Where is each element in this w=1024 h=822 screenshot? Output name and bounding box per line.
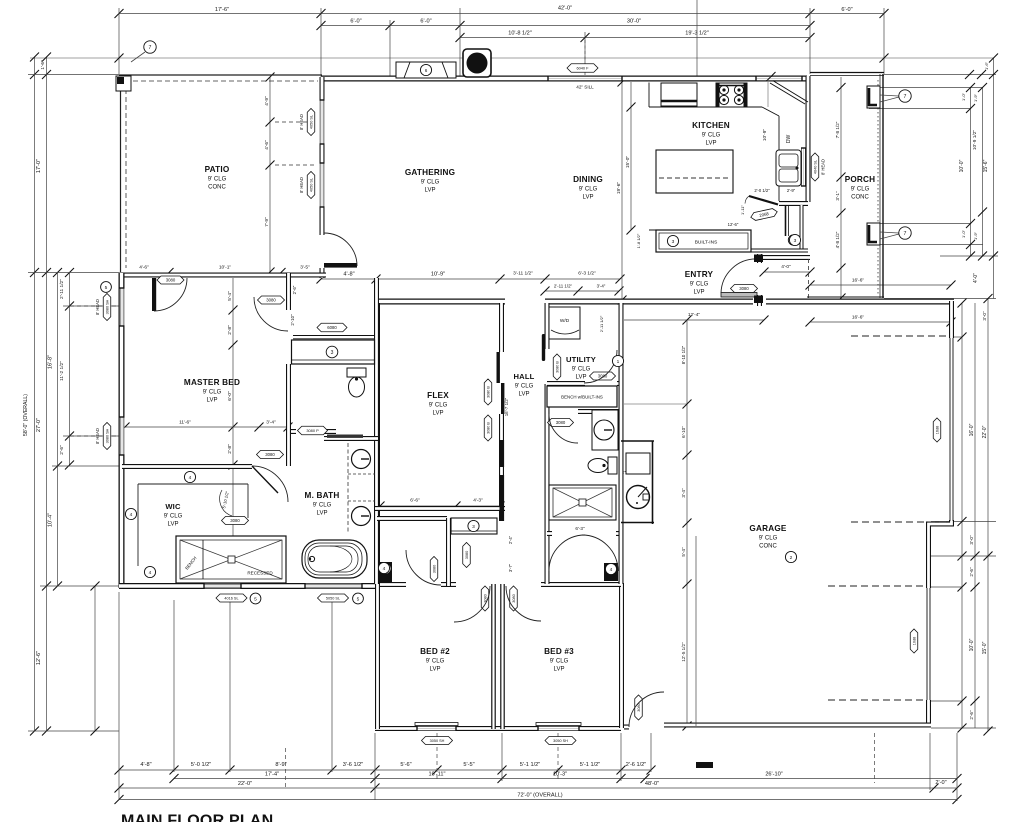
interior wall: garage west / middle column east [619, 303, 624, 584]
svg-text:16d8: 16d8 [936, 426, 940, 434]
svg-text:10'-9 1/2": 10'-9 1/2" [972, 130, 978, 151]
svg-text:2'-11 1/2": 2'-11 1/2" [554, 284, 573, 289]
svg-text:2'-8": 2'-8" [227, 325, 233, 335]
label hexagon 3050 SH bed3 [545, 737, 576, 745]
svg-text:4040 SL: 4040 SL [814, 160, 818, 174]
window 5050 SL mbath south [305, 584, 362, 589]
label hexagon 3080 P WC pocket door [298, 426, 328, 435]
interior wall: mbath north [324, 436, 378, 441]
porch column lower [867, 223, 880, 245]
kitchen sink [776, 150, 801, 186]
svg-text:UTILITY: UTILITY [566, 355, 596, 364]
tick on top wall at kitchen corner [767, 72, 776, 81]
exterior wall: master bed top (patio south) [119, 273, 326, 278]
svg-text:3080: 3080 [512, 594, 516, 602]
bath2 toilet [588, 457, 617, 474]
svg-text:6'-0": 6'-0" [350, 19, 361, 25]
washer dryer [549, 307, 580, 339]
svg-text:LVP: LVP [554, 667, 565, 673]
svg-text:9' CLG: 9' CLG [421, 180, 440, 186]
svg-text:3080: 3080 [465, 551, 469, 559]
fireplace [463, 49, 491, 77]
svg-text:4: 4 [189, 475, 192, 481]
exterior wall: house left [119, 273, 125, 588]
svg-text:8'-9": 8'-9" [275, 762, 286, 768]
marker 4 nook [380, 563, 391, 574]
label hexagon 3080 nook closet door [430, 557, 438, 582]
marker circle 7 lower porch [880, 232, 899, 233]
svg-text:3080: 3080 [265, 452, 275, 457]
marker 4 hall closet [605, 563, 616, 574]
svg-text:BED #3: BED #3 [544, 647, 574, 656]
svg-text:4'-3": 4'-3" [473, 498, 483, 504]
svg-text:2'-6": 2'-6" [292, 285, 297, 294]
svg-text:5: 5 [254, 596, 257, 602]
wall poche: hall west black segment [500, 440, 505, 467]
svg-text:3080 SH: 3080 SH [106, 299, 110, 314]
svg-text:LVP: LVP [168, 522, 179, 528]
svg-text:10'-3": 10'-3" [553, 772, 567, 778]
svg-text:9' CLG: 9' CLG [208, 177, 227, 183]
svg-text:1'-6": 1'-6" [40, 60, 45, 70]
svg-text:1'-0": 1'-0" [961, 92, 966, 101]
wall poche: nook west jamb [379, 562, 392, 582]
svg-text:8'-10 1/2": 8'-10 1/2" [681, 345, 686, 364]
window kitchen north [756, 76, 802, 81]
svg-text:1'-8 1/2": 1'-8 1/2" [636, 233, 641, 248]
svg-text:9' CLG: 9' CLG [579, 187, 598, 193]
interior wall: WC south + pocket jambs [288, 429, 336, 434]
wic marker 4 circles [184, 471, 195, 482]
svg-text:16'-6": 16'-6" [852, 278, 865, 284]
svg-text:4'-0": 4'-0" [973, 273, 979, 283]
interior wall: bed2/bed3 divider east leaf [500, 584, 505, 729]
svg-text:2'-0": 2'-0" [935, 780, 946, 786]
svg-text:BENCH w/BUILT-INS: BENCH w/BUILT-INS [561, 395, 603, 400]
svg-text:LVP: LVP [317, 511, 328, 517]
svg-text:3'-4": 3'-4" [597, 284, 606, 289]
svg-text:3080 SH: 3080 SH [106, 428, 110, 443]
svg-text:8' HEAD: 8' HEAD [95, 299, 100, 315]
label hexagon 3080 wic opening [222, 517, 249, 525]
wic shelving lines [138, 484, 248, 566]
svg-text:PORCH: PORCH [845, 175, 876, 184]
svg-text:2'-4": 2'-4" [508, 535, 513, 544]
svg-text:HALL: HALL [513, 372, 534, 381]
svg-text:4'-8": 4'-8" [140, 762, 151, 768]
svg-text:5'-6": 5'-6" [400, 762, 411, 768]
svg-text:10'-9": 10'-9" [762, 129, 768, 142]
garage door 10x8 panel east lower [927, 588, 930, 700]
label hexagon 6040 F dining [567, 64, 598, 73]
svg-text:1'-9": 1'-9" [973, 93, 978, 102]
window sill bed3 [536, 723, 581, 726]
svg-text:2'-11 1/2": 2'-11 1/2" [59, 279, 65, 299]
svg-text:PATIO: PATIO [205, 165, 230, 174]
svg-text:3: 3 [672, 239, 675, 245]
svg-text:LVP: LVP [519, 392, 530, 398]
interior wall: bed2 closet nook north [377, 516, 447, 521]
scale bar mark [696, 762, 713, 768]
window 3050 SH bed2 south [417, 726, 456, 731]
svg-text:15'-6": 15'-6" [983, 159, 989, 172]
wall poche: hall closet east jamb [604, 563, 618, 581]
marker circle 7 upper porch [880, 95, 899, 96]
svg-text:3080: 3080 [230, 518, 240, 523]
svg-text:12'-6": 12'-6" [728, 222, 739, 227]
svg-text:3080 B: 3080 B [487, 386, 491, 398]
water heater [627, 486, 650, 509]
svg-text:9' CLG: 9' CLG [515, 384, 534, 390]
svg-text:ENTRY: ENTRY [685, 270, 714, 279]
svg-text:LVP: LVP [425, 188, 436, 194]
window 3080 SH master left upper [120, 288, 125, 326]
svg-text:42" SILL: 42" SILL [576, 85, 594, 90]
dashed window locator lines master left [70, 305, 117, 307]
window 4040 SL kitchen east [801, 148, 806, 186]
exterior wall: garage east lower below door [926, 700, 931, 727]
closet 6080 bifold lines [293, 335, 374, 337]
exterior wall: beds south [375, 726, 621, 731]
window 4050 SL gathering west lower [320, 163, 325, 207]
svg-text:11'-6": 11'-6" [179, 420, 191, 426]
label hexagon 3080 bed2 door [481, 586, 489, 611]
svg-text:8' HEAD: 8' HEAD [821, 159, 826, 175]
svg-text:5'-5": 5'-5" [463, 762, 474, 768]
svg-text:3050 SH: 3050 SH [553, 739, 568, 743]
door arc bed2 [454, 586, 490, 622]
svg-text:6040 F: 6040 F [576, 66, 589, 71]
door arc nook closet [406, 550, 441, 585]
label hexagon 3050 SH bed2 [422, 737, 453, 745]
exterior wall: gathering west (patio party wall) [320, 77, 325, 278]
svg-text:10'-9": 10'-9" [431, 272, 445, 278]
garage door track dashed 3 [828, 585, 925, 587]
window 3050 SH bed3 south [538, 726, 579, 731]
svg-text:12'-5 1/2": 12'-5 1/2" [681, 642, 686, 662]
interior wall: flex/utility/garage north [375, 299, 954, 305]
svg-text:3: 3 [472, 524, 475, 530]
svg-text:4'-6": 4'-6" [139, 265, 149, 271]
svg-text:9' CLG: 9' CLG [429, 403, 448, 409]
svg-text:2'-6": 2'-6" [59, 445, 65, 455]
svg-text:15'-0": 15'-0" [982, 641, 988, 654]
svg-text:5'-4": 5'-4" [227, 291, 233, 301]
kitchen range with burners [716, 83, 747, 107]
door arc hall closet right [582, 535, 618, 571]
svg-text:26'-10": 26'-10" [765, 772, 782, 778]
svg-text:4050 SL: 4050 SL [310, 115, 314, 129]
svg-text:3'-4": 3'-4" [681, 488, 686, 498]
svg-text:22'-0": 22'-0" [982, 425, 988, 438]
svg-text:9' CLG: 9' CLG [550, 659, 569, 665]
label hexagon 4016 SL + 5 [216, 594, 247, 602]
label marker circle 5 left wall [101, 282, 112, 293]
svg-text:3080 P: 3080 P [306, 428, 319, 433]
svg-text:9' CLG: 9' CLG [690, 282, 709, 288]
svg-text:RECESSED: RECESSED [247, 571, 273, 576]
svg-text:3080: 3080 [166, 278, 176, 283]
interior wall: flex south [375, 506, 505, 511]
svg-text:6'-10": 6'-10" [681, 426, 686, 438]
kitchen north counter line [649, 106, 762, 108]
marker 3 pantry cabinet [788, 235, 798, 245]
svg-text:2'-0 1/2": 2'-0 1/2" [754, 188, 770, 193]
svg-text:9' CLG: 9' CLG [851, 187, 870, 193]
door arc master entry [254, 297, 288, 331]
built-ins wall stub kitchen [750, 230, 752, 252]
pantry door leaf 2068 (open diagonal) [749, 196, 778, 205]
svg-text:9' CLG: 9' CLG [203, 390, 222, 396]
svg-text:LVP: LVP [706, 141, 717, 147]
label hexagon 3080 bed3 door [510, 586, 518, 611]
svg-text:MASTER BED: MASTER BED [184, 378, 240, 387]
master bathtub [302, 540, 367, 578]
label hexagon 5050 SL + 5 [318, 594, 349, 602]
barn door panel flex lower [501, 383, 504, 414]
window 3080 SH master left lower [120, 417, 125, 455]
svg-text:4'-8": 4'-8" [343, 272, 354, 278]
svg-text:2'-10": 2'-10" [290, 314, 295, 326]
svg-text:9' CLG: 9' CLG [702, 133, 721, 139]
porch west dashed edge [808, 259, 810, 298]
svg-text:LVP: LVP [207, 398, 218, 404]
svg-text:42'-0": 42'-0" [558, 6, 572, 12]
svg-text:17'-6": 17'-6" [215, 7, 229, 13]
svg-text:BUILT-INS: BUILT-INS [695, 240, 718, 246]
garage door track dashed 4 [828, 699, 925, 701]
marker 1 utility [612, 355, 623, 366]
dashed window locator lines patio [275, 121, 316, 123]
svg-text:7: 7 [904, 231, 907, 237]
svg-text:2'-6 1/2": 2'-6 1/2" [626, 762, 646, 768]
svg-text:3080: 3080 [433, 565, 437, 573]
exterior wall: garage east pier at step [929, 520, 952, 588]
svg-text:1'-6": 1'-6" [984, 61, 989, 70]
svg-text:5: 5 [357, 596, 360, 602]
master WC toilet [347, 368, 366, 397]
svg-text:2'-6": 2'-6" [969, 710, 974, 720]
hall closet3 box [451, 518, 497, 534]
svg-text:6'-3 1/2": 6'-3 1/2" [578, 271, 596, 277]
water heater nook walls [621, 441, 654, 524]
svg-text:16'-7 1/2": 16'-7 1/2" [504, 397, 509, 416]
interior wall: hall east / utility west [545, 303, 550, 584]
utility barn door black panel [542, 334, 545, 361]
svg-text:6'-6": 6'-6" [410, 498, 420, 504]
svg-text:3'-7": 3'-7" [508, 563, 513, 572]
window 4016 SL mbath south [204, 584, 241, 589]
svg-text:4'-8 1/2": 4'-8 1/2" [835, 231, 840, 248]
svg-text:3'-0": 3'-0" [982, 311, 987, 321]
svg-text:5'-4": 5'-4" [681, 547, 686, 557]
svg-text:MAIN FLOOR PLAN: MAIN FLOOR PLAN [121, 813, 273, 822]
svg-text:48'-0": 48'-0" [645, 781, 659, 787]
svg-text:GATHERING: GATHERING [405, 168, 455, 177]
interior wall: master south / WIC north [122, 464, 252, 469]
svg-text:GARAGE: GARAGE [749, 524, 786, 533]
svg-text:3'-4": 3'-4" [266, 420, 276, 426]
window 6040 F dining north [548, 76, 622, 81]
svg-text:3'-0": 3'-0" [969, 535, 974, 545]
svg-text:8' HEAD: 8' HEAD [299, 114, 304, 130]
interior wall: bed2 closet nook east [446, 518, 451, 586]
exterior wall: garage south [664, 723, 931, 728]
svg-text:DINING: DINING [573, 175, 603, 184]
svg-text:DW: DW [786, 135, 792, 144]
mbath vanity two sinks [348, 443, 375, 534]
svg-text:7: 7 [904, 94, 907, 100]
porch edge line right [878, 74, 883, 298]
svg-text:10'-8 1/2": 10'-8 1/2" [508, 31, 532, 37]
svg-text:4016 SL: 4016 SL [224, 597, 238, 601]
svg-text:5'-0 1/2": 5'-0 1/2" [191, 762, 211, 768]
svg-text:19'-6": 19'-6" [616, 182, 622, 195]
svg-text:5'-1 1/2": 5'-1 1/2" [520, 762, 540, 768]
wall: pantry south / builtins row south [751, 249, 808, 253]
svg-text:10'-0": 10'-0" [969, 638, 975, 651]
door leaf patio-gathering (open against wall) [324, 263, 357, 268]
svg-text:2'-6": 2'-6" [969, 567, 974, 577]
built-ins cabinet entry north [656, 230, 801, 252]
svg-text:4'-9": 4'-9" [264, 96, 270, 106]
label hexagon 16d8 garage door [933, 418, 941, 442]
svg-text:3'-6 1/2": 3'-6 1/2" [343, 762, 363, 768]
svg-text:22'-0": 22'-0" [238, 781, 252, 787]
svg-text:1: 1 [617, 359, 620, 365]
svg-text:FLEX: FLEX [427, 391, 449, 400]
svg-text:M. BATH: M. BATH [305, 491, 340, 500]
door arc utility [584, 350, 617, 383]
label hexagon 3080 backdoor [635, 695, 643, 720]
svg-text:11'-2 1/2": 11'-2 1/2" [59, 361, 65, 381]
interior wall: flex west / bed2 west [375, 303, 380, 729]
door arc master south to WIC [252, 466, 288, 502]
interior wall: beds north [375, 582, 621, 587]
svg-text:3050 SH: 3050 SH [430, 739, 445, 743]
interior wall: master SE corner vertical [286, 411, 291, 466]
svg-text:2'-8": 2'-8" [227, 444, 233, 454]
wall: entry east with front door jambs [757, 254, 762, 306]
svg-text:9' CLG: 9' CLG [164, 514, 183, 520]
wall: pantry east [800, 205, 804, 251]
svg-text:3'-11 1/2": 3'-11 1/2" [513, 271, 533, 277]
wall: entry north stub to porch [759, 255, 810, 260]
barn door panel flex upper [497, 352, 500, 383]
door leaf entry front (open) [721, 293, 757, 298]
svg-text:6'-0": 6'-0" [841, 7, 852, 13]
svg-text:7: 7 [149, 45, 152, 51]
label hexagon 3080 utility door [590, 372, 616, 380]
svg-text:9' CLG: 9' CLG [759, 536, 778, 542]
svg-text:KITCHEN: KITCHEN [692, 121, 730, 130]
door arc wic curved leader [220, 490, 232, 516]
marker 4 mbath east [378, 562, 389, 573]
label hexagon 3080 master entry door [258, 296, 285, 304]
entry door jamb black bottom [754, 296, 763, 304]
svg-text:10'-0": 10'-0" [959, 159, 965, 172]
svg-text:8' HEAD: 8' HEAD [95, 428, 100, 444]
marker 2 garage [785, 551, 796, 562]
svg-text:LVP: LVP [430, 667, 441, 673]
svg-text:6'-0": 6'-0" [227, 391, 233, 401]
door arc backdoor garage [629, 692, 664, 727]
svg-text:3: 3 [794, 238, 797, 244]
interior wall: WC west [286, 364, 291, 433]
exterior wall: garage east upper [949, 301, 954, 338]
kitchen corner pantry diagonal front [770, 83, 805, 104]
interior wall: master WC east / mbath east [374, 278, 379, 584]
svg-text:16'-6": 16'-6" [852, 315, 865, 321]
svg-text:LVP: LVP [576, 375, 587, 381]
svg-text:17'-4": 17'-4" [265, 772, 279, 778]
svg-text:3: 3 [331, 350, 334, 356]
kitchen east counter line [778, 116, 780, 201]
label hexagon 3080 master south door [257, 451, 284, 459]
master shower recessed with X and bench [176, 536, 286, 583]
svg-text:LVP: LVP [694, 290, 705, 296]
svg-text:12'-4": 12'-4" [688, 312, 701, 318]
label hexagon 3080 patio-master door [157, 276, 184, 284]
svg-text:9' CLG: 9' CLG [313, 503, 332, 509]
patio open edges (thin + dashed) [119, 75, 322, 272]
porch column upper [867, 86, 880, 108]
label hexagon 2068 pantry (diagonal) [750, 208, 778, 221]
door arc entry front [721, 259, 757, 293]
exterior wall: house top (gathering/dining/kitchen north) [321, 76, 807, 82]
svg-text:4'-6": 4'-6" [264, 140, 270, 150]
svg-text:3'-5": 3'-5" [300, 265, 310, 271]
svg-text:15'-0": 15'-0" [625, 156, 631, 169]
patio corner column [116, 76, 131, 91]
svg-text:10'-1": 10'-1" [219, 265, 232, 271]
door arc patio-master [154, 278, 187, 311]
svg-text:10d8: 10d8 [913, 637, 917, 645]
svg-text:5: 5 [105, 285, 108, 291]
marker circle 7 with leader (patio column) [131, 41, 156, 62]
svg-text:1'-11": 1'-11" [740, 204, 745, 214]
door leaf patio-master [152, 278, 156, 311]
garage service line [695, 536, 697, 726]
wall: kitchen east [806, 76, 811, 202]
svg-text:7'-9": 7'-9" [264, 217, 270, 227]
svg-text:16'-0": 16'-0" [969, 423, 975, 436]
svg-text:3080: 3080 [739, 286, 749, 291]
svg-text:3080: 3080 [556, 420, 566, 425]
svg-text:6080: 6080 [327, 325, 337, 330]
interior wall: utility south + door jamb [547, 381, 621, 386]
svg-text:4: 4 [610, 567, 613, 573]
svg-text:4: 4 [383, 566, 386, 572]
porch top edge [810, 72, 884, 74]
label hexagon 3080 B flex barn upper [484, 379, 492, 405]
pantry divider wall [785, 205, 787, 236]
exterior wall: master suite south [119, 583, 378, 589]
svg-text:1'-0": 1'-0" [961, 229, 966, 238]
svg-text:9' CLG: 9' CLG [572, 367, 591, 373]
furnace [626, 453, 650, 474]
interior wall: hall closet north (jambs) [547, 531, 621, 536]
garage door track dashed 1 [851, 335, 947, 337]
interior wall: flex east / hall west [499, 303, 504, 521]
label hexagon 3080 entry door [731, 285, 758, 293]
svg-text:5050 SL: 5050 SL [326, 597, 340, 601]
svg-text:30'-0": 30'-0" [627, 19, 641, 25]
door arc hall closet left [549, 535, 585, 571]
svg-text:6'-0": 6'-0" [420, 19, 431, 25]
svg-text:4050 SL: 4050 SL [310, 178, 314, 192]
svg-text:58'-0" (OVERALL): 58'-0" (OVERALL) [23, 394, 29, 436]
